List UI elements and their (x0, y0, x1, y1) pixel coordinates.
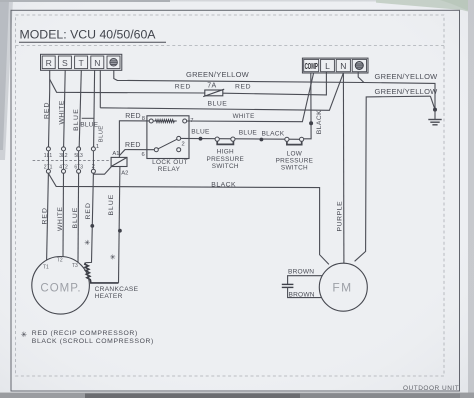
svg-text:BLUE: BLUE (208, 101, 228, 108)
svg-text:OUTDOOR UNIT: OUTDOOR UNIT (403, 385, 459, 392)
label CRANKCASE HEATER (95, 286, 139, 300)
wire blue A2 down to heater (119, 167, 120, 283)
svg-text:6: 6 (142, 152, 145, 158)
wire R red down to contactor (49, 70, 50, 147)
relay switch arm (158, 139, 177, 149)
svg-text:S: S (62, 58, 68, 68)
svg-text:BLUE: BLUE (108, 194, 115, 216)
svg-text:✳: ✳ (21, 330, 27, 339)
title MODEL: VCU 40/50/60A (19, 28, 166, 43)
wire red to fuse from R (50, 79, 205, 93)
fuse F1 7A (203, 83, 224, 97)
svg-text:A1: A1 (112, 151, 119, 157)
high pressure switch S1 (215, 137, 235, 144)
low pressure switch S2 (285, 137, 304, 144)
label RED at relay 8 (125, 113, 141, 120)
svg-text:WHITE: WHITE (57, 207, 64, 231)
svg-text:WHITE: WHITE (58, 100, 65, 124)
svg-text:RELAY: RELAY (158, 166, 181, 173)
svg-text:7A: 7A (207, 83, 216, 90)
svg-text:6T3: 6T3 (74, 165, 83, 171)
svg-text:T3: T3 (72, 263, 78, 269)
svg-text:2: 2 (92, 164, 95, 170)
label PURPLE vertical (336, 201, 343, 232)
junction node chain left (199, 137, 203, 141)
label WHITE vertical (58, 100, 65, 124)
label BLUE vertical T3 (72, 207, 79, 229)
crankcase heater element (85, 263, 119, 283)
svg-text:BLACK (SCROLL COMPRESSOR): BLACK (SCROLL COMPRESSOR) (32, 338, 154, 345)
legend asterisk note (21, 330, 154, 345)
wire TB2 earth to green/yellow bus (358, 72, 364, 83)
lock out relay U1 (147, 116, 189, 159)
label WHITE (233, 113, 255, 120)
svg-text:HIGH: HIGH (217, 149, 234, 156)
svg-text:BLUE: BLUE (73, 108, 80, 131)
wire purple N to fan motor (342, 73, 345, 264)
wire T1 red down to compressor (47, 173, 49, 260)
asterisk mark near blue wire (110, 252, 116, 261)
label BLACK vertical (316, 110, 323, 134)
svg-text:LOCK OUT: LOCK OUT (152, 159, 188, 166)
TB2 earth terminal symbol (355, 62, 363, 70)
svg-text:MODEL: VCU 40/50/60A: MODEL: VCU 40/50/60A (20, 28, 157, 42)
label BLACK chain (262, 130, 285, 137)
svg-text:GREEN/YELLOW: GREEN/YELLOW (375, 87, 439, 96)
svg-text:PRESSURE: PRESSURE (207, 156, 245, 163)
label BLUE vertical (73, 108, 80, 131)
label BLACK wire (211, 181, 236, 188)
junction node on aux wire (90, 224, 94, 228)
contactor pole 1 L1-T1 (46, 147, 50, 173)
svg-text:BLUE: BLUE (239, 129, 258, 136)
wire white from relay to COMP terminal (187, 73, 314, 122)
svg-text:BLUE: BLUE (191, 128, 210, 135)
label BROWN upper (288, 268, 314, 275)
labels 1L1 2T1 (44, 153, 53, 171)
label BLUE vertical second (99, 125, 105, 142)
svg-text:RED: RED (85, 202, 92, 219)
svg-text:BLUE: BLUE (99, 125, 105, 142)
label RED vertical (44, 102, 51, 119)
wire T2 white down to compressor (62, 173, 65, 256)
svg-text:1: 1 (96, 144, 99, 150)
wire brown FM upper to capacitor (288, 276, 323, 284)
svg-text:5L3: 5L3 (74, 153, 83, 159)
contactor coil A1 A2 (111, 151, 128, 177)
wire red from fuse to L (223, 72, 327, 95)
leader line for BLUE label (82, 117, 95, 119)
ground symbol earth (428, 110, 441, 125)
label RED left of fuse (175, 83, 191, 90)
svg-text:RED: RED (235, 83, 251, 90)
label RED vertical T1 (41, 207, 48, 224)
safety chain wire relay 2 to LP switch (181, 137, 302, 140)
svg-text:BLACK: BLACK (316, 110, 323, 134)
svg-text:RED: RED (175, 83, 191, 90)
label RED vertical aux (85, 202, 92, 219)
wire brown FM lower to capacitor (288, 287, 322, 297)
label LOCK OUT RELAY (152, 159, 188, 173)
label BLUE chain left (191, 128, 210, 135)
contactor K1 mechanical link dashed (33, 159, 112, 161)
wire red A1 branch to relay pin 6 (120, 150, 155, 156)
relay pin 7 (183, 118, 194, 124)
relay coil (153, 120, 176, 123)
svg-text:L: L (325, 61, 330, 71)
labels 5L3 6T3 (74, 153, 83, 171)
label BROWN lower (289, 291, 315, 298)
label BLUE horizontal (80, 122, 100, 129)
svg-text:BROWN: BROWN (289, 291, 315, 298)
label RED right of fuse (235, 83, 251, 90)
svg-text:7: 7 (190, 118, 193, 124)
TB1 earth terminal symbol (110, 59, 118, 67)
svg-text:RED: RED (41, 207, 48, 224)
wire PE green/yellow bus (114, 70, 435, 109)
svg-text:1L1: 1L1 (44, 153, 53, 159)
label WHITE vertical T2 (57, 207, 64, 231)
svg-text:T2: T2 (57, 258, 63, 264)
terminal block TB1 R S T N PE (41, 54, 122, 70)
contactor pole 3 L3-T3 (77, 147, 81, 173)
wire black COMP signal down (302, 73, 312, 139)
capacitor C1 (282, 284, 294, 287)
relay pin 2 (177, 136, 185, 147)
svg-text:✳: ✳ (84, 238, 90, 247)
wire A2 step to aux pole (93, 167, 111, 175)
contactor pole 2 L2-T2 (62, 147, 66, 173)
wire red A1 to relay pin 8 (119, 121, 149, 158)
relay pin 8 (142, 116, 154, 123)
label BLUE vertical A2 (108, 194, 115, 216)
label OUTDOOR UNIT (403, 385, 459, 392)
svg-text:RED: RED (44, 102, 51, 119)
wire blue bus to right block N (100, 73, 343, 110)
svg-text:BLUE: BLUE (72, 207, 79, 229)
svg-text:COMP: COMP (305, 63, 319, 72)
svg-text:BLACK: BLACK (211, 181, 236, 188)
dashed line under title (16, 45, 445, 47)
svg-text:T1: T1 (43, 265, 49, 271)
svg-text:N: N (340, 61, 346, 71)
compressor motor COMP (32, 257, 90, 315)
svg-text:R: R (46, 58, 52, 68)
svg-text:N: N (94, 58, 100, 68)
svg-text:GREEN/YELLOW: GREEN/YELLOW (375, 72, 439, 81)
svg-text:SWITCH: SWITCH (281, 164, 308, 171)
svg-text:✳: ✳ (110, 252, 116, 261)
terminal block TB2 COMP L N PE (302, 58, 368, 73)
label BLUE chain mid (239, 129, 258, 136)
wire N2 to blue bus (99, 70, 101, 108)
contactor aux pole 1-2 (91, 144, 99, 173)
junction node on blue A2 wire (118, 229, 122, 233)
label LOW PRESSURE SWITCH (276, 150, 314, 171)
fan motor FM (319, 263, 367, 311)
label BLUE on bus (208, 101, 228, 108)
svg-text:BLACK: BLACK (262, 130, 285, 137)
svg-text:T: T (78, 58, 84, 68)
svg-text:RED: RED (125, 113, 141, 120)
svg-text:RED: RED (125, 142, 141, 149)
label HIGH PRESSURE SWITCH (207, 149, 245, 170)
junction node on black (309, 121, 313, 125)
svg-text:FM: FM (332, 281, 352, 295)
svg-text:2: 2 (182, 141, 185, 147)
svg-text:COMP.: COMP. (40, 283, 81, 295)
svg-text:2T1: 2T1 (44, 165, 53, 171)
wire T blue down to contactor (79, 70, 81, 147)
svg-text:LOW: LOW (287, 150, 303, 157)
svg-text:BROWN: BROWN (288, 268, 314, 275)
label GREEN/YELLOW left (186, 70, 250, 79)
label GREEN/YELLOW right lower (375, 87, 439, 96)
svg-text:PURPLE: PURPLE (336, 201, 343, 232)
label RED at relay 6 (125, 142, 141, 149)
svg-text:RED (RECIP COMPRESSOR): RED (RECIP COMPRESSOR) (32, 330, 138, 337)
wire green/yellow 2 from FM earth riser (355, 96, 435, 261)
wire T3 blue down to compressor (77, 173, 80, 262)
svg-text:GREEN/YELLOW: GREEN/YELLOW (186, 70, 250, 79)
junction earth node (433, 108, 437, 112)
svg-text:A2: A2 (121, 171, 128, 177)
svg-text:BLUE,: BLUE, (80, 122, 100, 129)
asterisk mark near aux wire (84, 238, 90, 247)
svg-text:WHITE: WHITE (233, 113, 255, 120)
wire S white down to contactor (64, 70, 66, 147)
labels 3L2 4T2 (59, 153, 68, 171)
junction node chain mid (260, 138, 264, 142)
wire black 2T1 to fan motor (48, 173, 329, 264)
relay NC contact (177, 148, 181, 152)
svg-text:CRANKCASE: CRANKCASE (95, 286, 139, 293)
svg-text:4T2: 4T2 (59, 165, 68, 171)
svg-text:3L2: 3L2 (59, 153, 68, 159)
relay pin 6 (142, 148, 159, 158)
svg-text:HEATER: HEATER (95, 293, 123, 300)
wire N1 blue down to contactor aux (94, 70, 95, 147)
svg-text:SWITCH: SWITCH (212, 163, 239, 170)
wire aux red down to crankcase heater (85, 173, 93, 262)
label GREEN/YELLOW right upper (375, 72, 439, 81)
